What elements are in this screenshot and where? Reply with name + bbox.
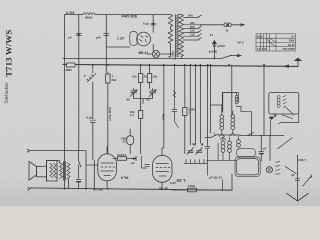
IFT coil L3 upper-right: [231, 114, 235, 129]
resistor R2 60k: [107, 73, 109, 75]
tube V4 osc circle: [266, 167, 272, 173]
wire input terminal: [27, 149, 86, 152]
wire osc box top lead: [223, 92, 239, 112]
resistor R3 12k: [140, 65, 142, 74]
svg-text:μF202: μF202: [217, 44, 225, 48]
tap 220: [184, 24, 201, 26]
svg-text:F1: F1: [210, 33, 214, 37]
tap 125: [184, 30, 202, 32]
junction dots bottom bus: [64, 188, 66, 190]
lamp LP1: [152, 50, 159, 57]
osc contacts: [283, 96, 286, 108]
trimmer TC5: [271, 115, 276, 120]
transformer TR1 core: [175, 15, 178, 58]
switch arm S5: [278, 138, 293, 149]
svg-text:AL4: AL4: [120, 176, 128, 181]
wire x205: [207, 65, 209, 143]
junction circle F1: [213, 45, 215, 47]
wire primary leads: [168, 15, 171, 57]
wire secondary top lead: [178, 14, 181, 16]
wire V1 top to cap: [152, 15, 154, 33]
tap 110: [184, 34, 202, 36]
wire x94 down: [93, 160, 95, 189]
capacitor C11: [295, 178, 300, 180]
tap 240: [184, 15, 202, 17]
svg-text:V?: V?: [291, 35, 295, 39]
band contacts lower: [275, 161, 280, 175]
tube V3: [153, 155, 173, 182]
tube V3 pins comb: [184, 160, 207, 164]
trimmer TC3: [187, 148, 194, 155]
wire lamp leads: [147, 53, 169, 55]
svg-text:1 2V: 1 2V: [117, 37, 125, 41]
field coil zigzag: [50, 164, 56, 178]
svg-text:AP 2: AP 2: [237, 41, 244, 45]
svg-text:150/0,5: 150/0,5: [117, 153, 127, 157]
svg-text:μ4ν: μ4ν: [96, 36, 102, 40]
switch S3 T: [211, 133, 219, 138]
wire V1 left: [106, 46, 130, 48]
bottom bus: [30, 188, 232, 190]
svg-text:15k: 15k: [153, 75, 158, 79]
svg-text:AN W: AN W: [288, 43, 295, 47]
wire x270 down: [269, 136, 271, 161]
wire top line: [65, 14, 168, 16]
tube V1: [137, 32, 151, 46]
capacitor C10: [259, 152, 264, 154]
svg-text:2,2V: 2,2V: [170, 181, 176, 185]
osc coil L7: [277, 96, 280, 108]
wire vertical x106: [105, 15, 107, 73]
wire mid link: [205, 135, 240, 138]
svg-text:P465 302E: P465 302E: [122, 15, 138, 19]
IFT coil L5 lower-mid: [228, 141, 232, 152]
wire k7 stub: [298, 159, 304, 161]
wire y135 line: [240, 135, 284, 137]
wire x210: [210, 65, 212, 133]
resistor R6 1/5W: [127, 136, 134, 145]
wire vertical x79: [78, 15, 80, 151]
trimmer TC2: [149, 89, 156, 97]
IFT coil L2 upper-left: [220, 115, 224, 130]
capacitor C9: [145, 165, 150, 167]
switch arm S6: [285, 166, 296, 174]
wire x163: [162, 65, 164, 150]
svg-text:A 302: A 302: [66, 11, 75, 15]
wire stub x222: [222, 180, 224, 190]
capacitor C1: [76, 33, 81, 37]
wire secondary bottom: [180, 57, 182, 59]
svg-text:■ 2/W: ■ 2/W: [209, 50, 217, 54]
svg-text:12k: 12k: [132, 75, 137, 79]
svg-text:2WV: 2WV: [289, 39, 295, 43]
wire osc step down: [244, 112, 252, 136]
svg-text:μF 302 10: μF 302 10: [209, 176, 222, 180]
wire x261 down: [260, 136, 262, 152]
tube table: [256, 34, 296, 51]
capacitor C4 heater: [168, 51, 175, 59]
svg-text:0,1μ: 0,1μ: [143, 22, 149, 26]
capacitor C7: [205, 143, 210, 175]
wire y160: [208, 160, 237, 162]
tap bottom: [184, 38, 202, 40]
wire left rail top: [64, 15, 66, 66]
output transformer secondary: [67, 163, 70, 179]
wire IFT tops: [211, 105, 222, 112]
potentiometer P1: [87, 65, 96, 82]
arrow switch out: [237, 54, 242, 57]
capacitor C2: [104, 33, 109, 37]
svg-text:20: 20: [123, 140, 127, 144]
label mark x174: [173, 91, 176, 97]
svg-text:5μ/ 1W: 5μ/ 1W: [159, 187, 168, 191]
wire trimmer links: [134, 96, 153, 104]
wire down to V2: [85, 151, 87, 189]
junction dots bus B: [93, 64, 264, 66]
wire mains feed: [202, 24, 224, 26]
wire bus B up arrow: [297, 59, 299, 66]
wire TC5 down: [270, 121, 272, 136]
wire OT leads: [47, 161, 69, 190]
osc can outer box: [235, 157, 260, 176]
wire x190: [189, 65, 191, 145]
svg-text:7M/5: 7M/5: [162, 113, 166, 120]
diagonal below box: [282, 115, 293, 119]
IFT coil L4 lower-left: [221, 141, 225, 152]
wire x195: [194, 65, 196, 145]
resistor R4 15k: [149, 65, 151, 74]
svg-text:Si: Si: [226, 29, 229, 33]
wire x264: [263, 65, 265, 136]
capacitor C3 0.1u: [151, 22, 156, 26]
wire x200: [199, 65, 201, 143]
ground symbol: [287, 193, 309, 201]
osc can box 3: [237, 159, 259, 175]
wire x232 osc: [231, 65, 233, 116]
svg-text:50: 50: [144, 75, 148, 79]
bus B: [63, 64, 298, 66]
svg-text:μF: μF: [263, 147, 267, 151]
switch S4: [248, 133, 254, 136]
svg-text:3M/5: 3M/5: [66, 68, 73, 72]
svg-text:+05μ 450V: +05μ 450V: [108, 107, 112, 121]
svg-text:μ4: μ4: [68, 36, 72, 40]
svg-text:60k: 60k: [112, 78, 117, 82]
svg-text:K 7: K 7: [302, 158, 307, 162]
capacitor C5 in series: [90, 120, 95, 122]
svg-text:W0/ 1W: W0/ 1W: [93, 188, 103, 192]
switch S2: [79, 151, 81, 179]
switch S1 mains: [222, 55, 238, 58]
arrow on bus B: [283, 64, 289, 68]
tube V1 socket bracket: [130, 32, 138, 46]
resistor R9 120: [172, 189, 188, 191]
resistor R7 0.3M: [184, 65, 186, 108]
svg-text:0,1: 0,1: [130, 113, 134, 117]
svg-text:AN2 W2W: AN2 W2W: [282, 47, 295, 51]
osc top coil L8: [235, 95, 238, 104]
arrow F1 up: [213, 44, 215, 58]
variable arrow A1: [303, 175, 312, 187]
resistor R5 10k: [140, 110, 142, 112]
svg-text:110: 110: [190, 32, 195, 36]
trimmer TC1: [130, 89, 137, 97]
bottom terminal hook: [28, 187, 30, 190]
IFT coil L6 lower-right: [237, 140, 241, 148]
wire fuse to plug: [231, 24, 242, 26]
wire below box: [278, 114, 298, 124]
svg-text:120Ω: 120Ω: [188, 184, 196, 188]
arrow mains plug: [241, 23, 246, 26]
wire x218: [217, 143, 219, 161]
resistor R1 3M/5: [67, 63, 76, 67]
transformer TR1 primary: [168, 15, 173, 44]
speaker SP1 driver: [37, 166, 47, 177]
svg-text:Telefunken: Telefunken: [5, 82, 10, 104]
tap 200: [184, 26, 202, 28]
wire right column: [297, 155, 299, 193]
svg-text:μF: μF: [291, 173, 295, 177]
svg-text:MB A1: MB A1: [139, 51, 149, 55]
wire grid V2: [86, 164, 98, 166]
tube V2 AL4: [98, 154, 117, 181]
capacitor C8: [76, 180, 81, 182]
wire pot down: [92, 82, 94, 119]
svg-text:T713 W/WS: T713 W/WS: [3, 30, 13, 77]
speaker SP1 cone: [29, 162, 37, 181]
shield box partial: [222, 93, 232, 112]
svg-text:L 4V: L 4V: [176, 178, 185, 183]
wire left rail: [64, 65, 66, 189]
svg-text:P: P: [84, 74, 86, 78]
output transformer core: [64, 162, 66, 181]
bus A: [63, 57, 222, 59]
connector arrow J1: [132, 157, 137, 161]
osc can box 2: [237, 149, 256, 157]
fuse F1: [224, 23, 231, 27]
resistor R8 150: [113, 158, 118, 160]
oscillator box OSC1: [269, 93, 299, 115]
svg-text:0,5μ: 0,5μ: [87, 116, 93, 120]
capacitor C6: [172, 65, 177, 111]
arrow up antenna: [294, 58, 302, 61]
transformer TR1 secondary: [179, 15, 184, 57]
wire between tubes: [142, 156, 147, 168]
svg-text:80kΩ: 80kΩ: [85, 16, 93, 20]
trimmer TC4: [196, 148, 203, 155]
svg-text:V E Z Zt: V E Z Zt: [257, 47, 267, 51]
wire heater vert: [152, 45, 154, 51]
coil L1: [83, 13, 95, 15]
svg-text:μF: μF: [131, 161, 135, 165]
osc switch arm diagonal: [286, 108, 294, 116]
output transformer OT primary: [60, 163, 63, 179]
speaker field coil frame: [47, 161, 58, 182]
svg-text:2020: 2020: [257, 35, 263, 39]
svg-text:240: 240: [188, 14, 193, 18]
